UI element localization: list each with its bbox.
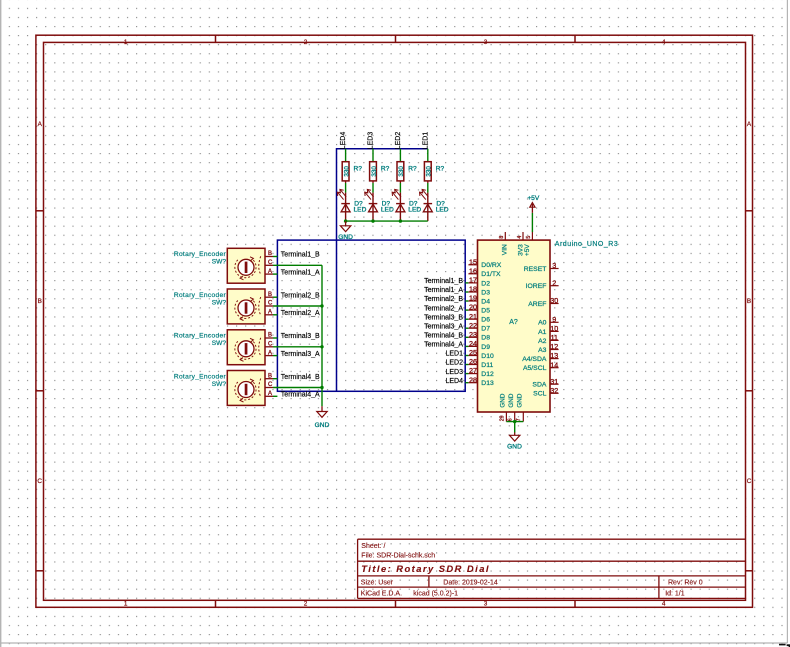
- svg-text:D11: D11: [481, 362, 493, 369]
- svg-text:LED4: LED4: [340, 132, 347, 150]
- svg-text:A: A: [747, 121, 752, 128]
- pin 4 3V3: [517, 232, 525, 256]
- svg-text:Title: Rotary SDR Dial: Title: Rotary SDR Dial: [361, 563, 490, 574]
- wire: [427, 149, 429, 162]
- rotary encoder SW4 (SW?): [174, 371, 273, 406]
- pin 32 SCL: [533, 386, 558, 398]
- svg-text:D9: D9: [481, 344, 490, 351]
- wire: [465, 345, 468, 347]
- svg-text:Sheet: /: Sheet: /: [361, 543, 385, 550]
- svg-text:B: B: [268, 373, 272, 379]
- svg-text:21: 21: [469, 312, 477, 321]
- svg-text:A4/SDA: A4/SDA: [522, 356, 547, 363]
- wire: [273, 346, 322, 348]
- svg-text:B: B: [268, 333, 272, 339]
- wire: [273, 355, 277, 357]
- svg-text:Terminal2_B: Terminal2_B: [281, 292, 320, 299]
- pin 28 D13: [468, 375, 494, 387]
- pin 6 GND: [508, 393, 515, 421]
- pin 11 A2: [538, 333, 559, 345]
- svg-text:C: C: [37, 478, 42, 485]
- svg-text:5: 5: [526, 236, 532, 239]
- svg-text:330: 330: [343, 166, 350, 177]
- svg-text:LED2: LED2: [395, 132, 402, 150]
- wire: common C net to ground: [321, 265, 323, 406]
- svg-text:LED1: LED1: [422, 132, 429, 150]
- pin 25 D10: [468, 348, 494, 360]
- LED D2 (D?): [365, 189, 394, 221]
- wire: [465, 364, 468, 366]
- wire: [273, 395, 277, 397]
- wire: [465, 282, 468, 284]
- svg-text:GND: GND: [315, 422, 330, 429]
- svg-text:Terminal3_B: Terminal3_B: [424, 314, 463, 321]
- svg-text:D7: D7: [481, 326, 490, 333]
- pin 27 D12: [468, 366, 494, 378]
- wire: [427, 183, 429, 193]
- svg-text:Terminal2_A: Terminal2_A: [424, 305, 463, 312]
- svg-text:C: C: [268, 260, 273, 266]
- svg-text:1: 1: [124, 39, 128, 46]
- svg-text:LED: LED: [408, 207, 421, 214]
- svg-text:4: 4: [662, 39, 666, 46]
- svg-text:Date: 2019-02-14: Date: 2019-02-14: [443, 580, 498, 587]
- pin 2 IOREF: [526, 278, 559, 290]
- svg-text:D3: D3: [481, 289, 490, 296]
- svg-text:B: B: [268, 251, 272, 257]
- pin 30 AREF: [528, 296, 558, 308]
- wire: [273, 296, 277, 298]
- svg-text:D2: D2: [481, 280, 490, 287]
- svg-text:Terminal1_B: Terminal1_B: [424, 278, 463, 285]
- svg-text:3: 3: [484, 600, 488, 607]
- svg-text:11: 11: [551, 333, 558, 342]
- wire: [372, 183, 374, 193]
- svg-text:LED3: LED3: [368, 132, 375, 150]
- svg-text:Rotary_Encoder: Rotary_Encoder: [174, 292, 227, 299]
- svg-text:GND: GND: [508, 393, 515, 407]
- pin 5 +5V: [524, 232, 532, 256]
- svg-text:2: 2: [304, 39, 308, 46]
- svg-text:Arduino_UNO_R3: Arduino_UNO_R3: [555, 241, 618, 248]
- wire: [399, 183, 401, 193]
- wire: [465, 355, 468, 357]
- svg-text:24: 24: [469, 339, 477, 348]
- LED D3 (D?): [392, 189, 421, 221]
- pin 18 D3: [468, 285, 490, 297]
- rotary encoder SW1 (SW?): [174, 248, 273, 283]
- svg-text:330: 330: [371, 166, 378, 177]
- svg-text:7: 7: [516, 418, 522, 421]
- svg-text:13: 13: [550, 351, 558, 360]
- title block: [358, 539, 746, 598]
- svg-text:B: B: [747, 298, 751, 305]
- svg-text:4: 4: [517, 236, 523, 239]
- svg-text:10: 10: [550, 324, 558, 333]
- svg-text:D10: D10: [481, 353, 494, 360]
- pin 16 D1/TX: [468, 266, 501, 278]
- svg-text:Terminal4_B: Terminal4_B: [281, 374, 320, 381]
- ground: GND under LED bank: [338, 221, 353, 241]
- wire: [273, 264, 322, 266]
- graphic line: notes box around LED bank: [337, 149, 428, 391]
- svg-text:20: 20: [469, 303, 477, 312]
- svg-text:D0/RX: D0/RX: [481, 262, 501, 269]
- wire: [465, 318, 468, 320]
- LED D4 (D?): [420, 189, 449, 221]
- svg-text:+5V: +5V: [527, 195, 540, 202]
- svg-text:LED1: LED1: [445, 351, 463, 358]
- svg-text:17: 17: [469, 276, 477, 285]
- svg-text:Terminal4_A: Terminal4_A: [281, 392, 320, 399]
- pin 8 VIN: [499, 232, 509, 255]
- svg-text:LED4: LED4: [445, 378, 463, 385]
- junction: [320, 386, 323, 389]
- wire: [273, 337, 277, 339]
- pin 31 SDA: [532, 377, 558, 389]
- svg-text:Terminal1_B: Terminal1_B: [281, 252, 320, 259]
- wire: [465, 327, 468, 329]
- wire: [273, 378, 277, 380]
- pin 29 GND: [499, 393, 506, 421]
- svg-text:19: 19: [469, 294, 477, 303]
- junction: [320, 304, 323, 307]
- pin 24 D9: [468, 339, 490, 351]
- svg-text:Rotary_Encoder: Rotary_Encoder: [174, 333, 227, 340]
- svg-text:A1: A1: [538, 329, 547, 336]
- wire: [465, 300, 468, 302]
- svg-text:C: C: [268, 301, 273, 307]
- pin 17 D2: [468, 276, 490, 288]
- svg-text:1: 1: [124, 600, 128, 607]
- svg-text:12: 12: [550, 342, 558, 351]
- svg-text:D1/TX: D1/TX: [481, 271, 501, 278]
- svg-text:D8: D8: [481, 335, 490, 342]
- graphic box: notes rectangle around terminal nets: [277, 240, 465, 391]
- svg-text:KiCad E.D.A.: KiCad E.D.A.: [361, 591, 402, 598]
- svg-text:B: B: [268, 292, 272, 298]
- pin 10 A1: [538, 324, 559, 336]
- svg-text:+5V: +5V: [524, 244, 531, 257]
- svg-text:SW?: SW?: [212, 259, 227, 266]
- svg-text:6: 6: [508, 418, 514, 421]
- wire: [273, 256, 277, 258]
- svg-text:LED: LED: [354, 207, 367, 214]
- wire: GND bus under Arduino: [506, 421, 523, 423]
- svg-text:GND: GND: [517, 393, 524, 407]
- wire: [273, 305, 322, 307]
- svg-text:LED2: LED2: [445, 360, 463, 367]
- wire: [345, 149, 347, 162]
- svg-text:Terminal1_A: Terminal1_A: [424, 287, 463, 294]
- svg-text:2: 2: [552, 278, 556, 287]
- svg-text:D5: D5: [481, 308, 490, 315]
- svg-text:A0: A0: [538, 320, 547, 327]
- svg-text:SW?: SW?: [212, 340, 227, 347]
- pin 21 D6: [468, 312, 490, 324]
- svg-text:B: B: [38, 298, 42, 305]
- svg-text:15: 15: [469, 257, 477, 266]
- svg-text:R?: R?: [408, 165, 417, 172]
- svg-text:3: 3: [552, 261, 556, 270]
- svg-text:Id: 1/1: Id: 1/1: [665, 591, 685, 598]
- svg-text:A?: A?: [509, 319, 518, 326]
- svg-text:16: 16: [469, 266, 477, 275]
- svg-text:8: 8: [499, 236, 505, 239]
- svg-text:D13: D13: [481, 380, 494, 387]
- ground: GND under Arduino: [507, 433, 522, 451]
- svg-text:R?: R?: [436, 165, 445, 172]
- svg-text:GND: GND: [507, 443, 522, 450]
- wire: [273, 387, 322, 389]
- svg-text:RESET: RESET: [524, 266, 547, 273]
- svg-text:LED3: LED3: [445, 369, 463, 376]
- svg-text:AREF: AREF: [528, 301, 546, 308]
- svg-text:kicad (5.0.2)-1: kicad (5.0.2)-1: [413, 591, 458, 598]
- svg-text:Terminal1_A: Terminal1_A: [281, 269, 320, 276]
- svg-text:SW?: SW?: [212, 299, 227, 306]
- wire: [465, 291, 468, 293]
- Arduino module A? (Arduino_UNO_R3): [478, 240, 619, 412]
- svg-text:Rotary_Encoder: Rotary_Encoder: [174, 373, 227, 380]
- svg-text:25: 25: [469, 348, 477, 357]
- svg-text:LED: LED: [436, 207, 449, 214]
- wire: [465, 309, 468, 311]
- svg-text:2: 2: [304, 600, 308, 607]
- svg-text:28: 28: [469, 375, 477, 384]
- wire: [465, 336, 468, 338]
- svg-text:Terminal4_B: Terminal4_B: [424, 333, 463, 340]
- svg-text:A: A: [268, 269, 272, 275]
- svg-text:31: 31: [550, 377, 558, 386]
- svg-text:C: C: [268, 342, 273, 348]
- svg-text:Terminal2_B: Terminal2_B: [424, 296, 463, 303]
- resistor R2 (R?) 330: [370, 162, 390, 183]
- svg-text:32: 32: [550, 386, 558, 395]
- svg-text:A: A: [38, 121, 43, 128]
- svg-text:330: 330: [398, 166, 405, 177]
- junction: [344, 219, 347, 222]
- wire: [514, 422, 516, 433]
- svg-text:Size: User: Size: User: [361, 580, 394, 587]
- pin 7 GND: [516, 393, 523, 421]
- svg-text:Terminal4_A: Terminal4_A: [424, 342, 463, 349]
- svg-text:GND: GND: [500, 393, 507, 407]
- svg-text:D4: D4: [481, 298, 490, 305]
- pin 15 D0/RX: [468, 257, 501, 269]
- junction: [399, 219, 402, 222]
- pin 20 D5: [468, 303, 490, 315]
- svg-text:SCL: SCL: [533, 391, 546, 398]
- pin 19 D4: [468, 294, 490, 306]
- svg-text:23: 23: [469, 330, 477, 339]
- svg-text:30: 30: [550, 296, 558, 305]
- pin 26 D11: [468, 357, 493, 369]
- wire: [399, 149, 401, 162]
- junction: [371, 219, 374, 222]
- svg-text:3: 3: [484, 39, 488, 46]
- svg-text:A: A: [268, 310, 272, 316]
- wire: [273, 314, 277, 316]
- svg-text:Terminal3_B: Terminal3_B: [281, 333, 320, 340]
- svg-text:330: 330: [426, 166, 433, 177]
- resistor R4 (R?) 330: [424, 162, 444, 183]
- pin 9 A0: [538, 315, 559, 327]
- pin 3 RESET: [524, 261, 559, 273]
- wire: [273, 273, 277, 275]
- pin 22 D7: [468, 321, 490, 333]
- junction: [320, 345, 323, 348]
- resistor R1 (R?) 330: [342, 162, 362, 183]
- svg-text:C: C: [747, 478, 752, 485]
- svg-text:29: 29: [499, 415, 505, 421]
- svg-text:14: 14: [550, 360, 558, 369]
- wire: [465, 373, 468, 375]
- svg-text:SW?: SW?: [212, 381, 227, 388]
- svg-text:File: SDR-Dial-schk.sch: File: SDR-Dial-schk.sch: [361, 553, 435, 560]
- svg-text:4: 4: [662, 600, 666, 607]
- resistor R3 (R?) 330: [397, 162, 417, 183]
- svg-text:27: 27: [469, 366, 477, 375]
- svg-text:VIN: VIN: [502, 244, 509, 255]
- svg-text:22: 22: [469, 321, 477, 330]
- svg-text:GND: GND: [338, 234, 353, 241]
- svg-text:C: C: [268, 382, 273, 388]
- wire: LED cathode bus: [346, 220, 428, 222]
- svg-text:Rev: Rev 0: Rev: Rev 0: [668, 580, 703, 587]
- svg-text:Terminal3_A: Terminal3_A: [281, 351, 320, 358]
- svg-text:A3: A3: [538, 347, 547, 354]
- svg-text:A: A: [268, 350, 272, 356]
- svg-text:R?: R?: [354, 165, 363, 172]
- svg-text:D12: D12: [481, 371, 494, 378]
- wire: [465, 382, 468, 384]
- svg-text:Terminal2_A: Terminal2_A: [281, 310, 320, 317]
- svg-text:IOREF: IOREF: [526, 283, 547, 290]
- svg-text:26: 26: [469, 357, 477, 366]
- LED D1 (D?): [337, 189, 366, 221]
- svg-text:Rotary_Encoder: Rotary_Encoder: [174, 251, 227, 258]
- svg-text:Terminal3_A: Terminal3_A: [424, 323, 463, 330]
- rotary encoder SW2 (SW?): [174, 289, 273, 324]
- svg-text:R?: R?: [381, 165, 390, 172]
- pin 14 A5/SCL: [523, 360, 559, 372]
- svg-text:A2: A2: [538, 338, 547, 345]
- pin 23 D8: [468, 330, 490, 342]
- junction: [513, 420, 516, 423]
- wire: [372, 149, 374, 162]
- svg-text:A: A: [268, 391, 272, 397]
- svg-text:D6: D6: [481, 317, 490, 324]
- svg-text:A5/SCL: A5/SCL: [523, 365, 547, 372]
- ground: GND for encoder commons: [315, 406, 330, 429]
- svg-text:9: 9: [552, 315, 556, 324]
- wire: [345, 183, 347, 193]
- pin 12 A3: [538, 342, 559, 354]
- pin 13 A4/SDA: [522, 351, 558, 363]
- rotary encoder SW3 (SW?): [174, 330, 273, 365]
- power +5V: [527, 195, 540, 232]
- svg-text:SDA: SDA: [532, 382, 546, 389]
- svg-text:LED: LED: [381, 207, 394, 214]
- svg-text:18: 18: [469, 285, 477, 294]
